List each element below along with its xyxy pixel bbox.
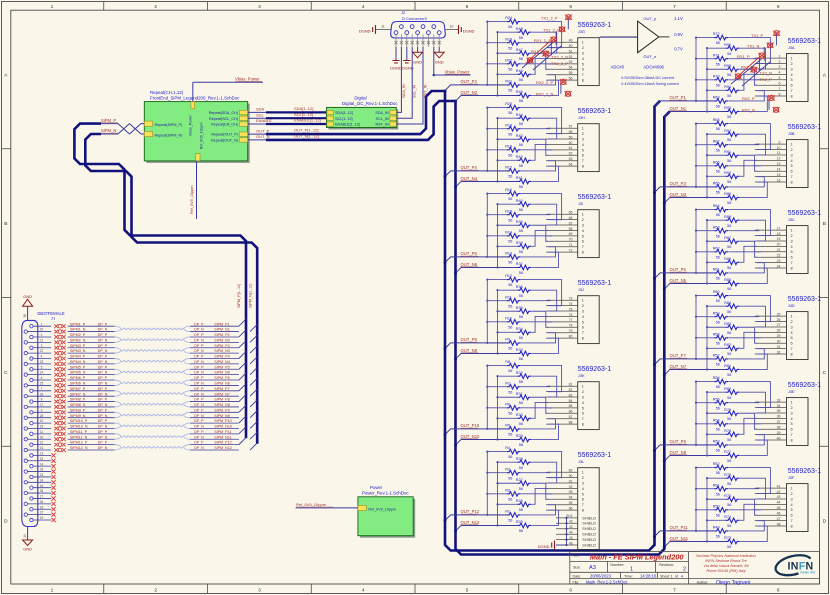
J3E pin 35 — [755, 412, 787, 414]
svg-text:Power_Rev.1-1.SchDoc: Power_Rev.1-1.SchDoc — [362, 491, 409, 496]
svg-text:R78: R78 — [724, 429, 731, 433]
wire R47 to pin 54 — [532, 53, 548, 69]
resistor R50 — [714, 507, 728, 512]
connector J1 body — [22, 320, 38, 526]
resistor R58 — [714, 336, 728, 341]
svg-text:5: 5 — [779, 76, 781, 80]
svg-text:3: 3 — [791, 325, 793, 329]
svg-text:SiPM9_N: SiPM9_N — [70, 414, 86, 418]
J3F pin 45 — [755, 509, 787, 511]
svg-text:19: 19 — [777, 237, 781, 241]
svg-text:56: 56 — [727, 310, 731, 314]
svg-text:4: 4 — [779, 71, 781, 75]
wire R9 left — [487, 342, 506, 344]
DGND power port left of J2 — [375, 25, 377, 29]
ferrite bead row SiPM4_N — [54, 362, 65, 366]
connector J3H body — [578, 124, 600, 172]
svg-text:44: 44 — [569, 531, 573, 535]
svg-text:DP_P: DP_P — [98, 419, 108, 423]
wire RST_IN from J2 to Digital — [396, 47, 423, 124]
svg-text:DP_P: DP_P — [98, 398, 108, 402]
bus entry SiPM_N2 — [250, 335, 257, 342]
bus entry SiPM_P6 — [239, 373, 246, 380]
svg-text:DP_N: DP_N — [194, 360, 204, 364]
svg-text:56: 56 — [727, 482, 731, 486]
resistor R12 — [507, 277, 521, 282]
svg-text:SiPM7_P: SiPM7_P — [70, 387, 86, 391]
J3L collector wire odd — [497, 462, 499, 525]
J1 pin 32 — [24, 459, 27, 462]
svg-text:B: B — [823, 221, 826, 227]
svg-text:RX2_N: RX2_N — [742, 108, 755, 113]
svg-text:12: 12 — [777, 157, 781, 161]
ferrite bead row SiPM8_N — [54, 405, 65, 409]
wire R37 to pin 72 — [532, 252, 559, 267]
svg-text:53: 53 — [569, 60, 573, 64]
resistor R56 — [714, 379, 728, 384]
svg-text:Power: Power — [370, 485, 383, 490]
svg-text:56: 56 — [727, 224, 731, 228]
J1 pin 35 — [24, 491, 27, 494]
svg-text:2: 2 — [791, 234, 793, 238]
resistor R3 — [507, 470, 521, 475]
resistor R27 — [517, 481, 531, 486]
svg-text:SCL_IN: SCL_IN — [413, 84, 417, 98]
J3A pin 5 — [755, 79, 787, 81]
svg-text:36: 36 — [777, 415, 781, 419]
twisted pair channel 5 — [121, 371, 184, 373]
svg-text:R53: R53 — [713, 440, 720, 444]
no-connect X pin 35 — [51, 491, 55, 495]
svg-text:8: 8 — [791, 524, 793, 528]
svg-text:5: 5 — [41, 365, 43, 369]
svg-text:R3: R3 — [505, 467, 510, 471]
svg-text:Diego Tagnani: Diego Tagnani — [716, 580, 750, 586]
sheet symbol FrontEnd_SiPM shadow — [146, 104, 249, 163]
wire R53 left — [696, 444, 714, 446]
wire DP right row 15 — [190, 406, 239, 408]
wire R71 left — [696, 58, 714, 60]
resistor R79 — [726, 411, 740, 416]
svg-text:8: 8 — [791, 438, 793, 442]
ferrite bead row SiPM3_P — [54, 346, 65, 350]
no-connect X pin 32 — [51, 459, 55, 463]
svg-text:R88: R88 — [724, 215, 731, 219]
J3K pin 84 — [546, 401, 578, 403]
svg-text:56: 56 — [519, 401, 523, 405]
wire R72 left — [696, 37, 714, 39]
svg-text:8: 8 — [582, 509, 584, 513]
svg-text:6: 6 — [791, 256, 793, 260]
wire R7 left — [487, 386, 506, 388]
J3G collector wire odd — [497, 32, 499, 95]
svg-text:56: 56 — [508, 519, 512, 523]
wire R49 to pin 47 — [729, 521, 765, 531]
svg-text:56: 56 — [716, 127, 720, 131]
wire R67 left — [696, 144, 714, 146]
svg-text:55: 55 — [569, 71, 573, 75]
svg-text:6: 6 — [582, 498, 584, 502]
svg-text:DGND: DGND — [359, 29, 371, 34]
wire DP right row 23 — [190, 449, 239, 451]
svg-text:DP_N: DP_N — [194, 403, 204, 407]
resistor R43 — [517, 137, 531, 142]
resistor R88 — [726, 218, 740, 223]
svg-text:37: 37 — [40, 511, 44, 515]
svg-text:DP_P: DP_P — [194, 419, 204, 423]
J1 GND top wire — [27, 307, 29, 321]
svg-text:R76: R76 — [724, 473, 731, 477]
wire tap OUT_N9 — [664, 455, 725, 461]
svg-text:56: 56 — [519, 229, 523, 233]
J3G pin 51 — [546, 52, 578, 54]
svg-text:Repeat(SDA_CH): Repeat(SDA_CH) — [209, 111, 238, 115]
wire R43 left — [498, 138, 518, 140]
svg-text:0.9V: 0.9V — [674, 32, 683, 37]
svg-text:OUT_N4: OUT_N4 — [461, 176, 478, 181]
svg-text:R20: R20 — [505, 102, 512, 106]
bus SiPM_P staircase to DB37 — [74, 124, 246, 439]
wire R79 left — [707, 412, 726, 414]
resistor R14 — [507, 234, 521, 239]
wire DP right row 13 — [190, 395, 239, 397]
GND power port top — [23, 299, 33, 306]
wire R70 left — [696, 79, 714, 81]
wire R23 left — [487, 42, 506, 44]
svg-text:3: 3 — [791, 411, 793, 415]
resistor R55 — [714, 400, 728, 405]
wire R1 left — [487, 514, 506, 516]
wire R82 left — [707, 347, 726, 349]
svg-text:70: 70 — [569, 238, 573, 242]
connector J3I body — [578, 210, 600, 258]
svg-text:14: 14 — [777, 168, 781, 172]
sheet entry SCL[1..12] — [327, 116, 334, 120]
svg-text:5569263-1: 5569263-1 — [788, 296, 822, 303]
wire R12 left — [487, 279, 506, 281]
svg-text:R2: R2 — [505, 488, 510, 492]
svg-text:OUT_P9: OUT_P9 — [670, 439, 687, 444]
connector J3G body — [578, 38, 600, 86]
svg-text:78: 78 — [569, 324, 573, 328]
J3C pin 21 — [755, 251, 787, 253]
wire R2 to pin 93 — [521, 493, 552, 495]
svg-text:DP_N: DP_N — [194, 328, 204, 332]
J2 pin circles top row — [400, 25, 404, 29]
wire R41 left — [498, 180, 518, 182]
svg-text:5569263-1: 5569263-1 — [578, 22, 612, 29]
svg-text:56: 56 — [508, 369, 512, 373]
wire SiPM1_P — [68, 325, 115, 327]
svg-text:SiPM_N5: SiPM_N5 — [214, 371, 230, 375]
svg-text:R72: R72 — [713, 32, 720, 36]
wire R85 to pin 24 — [740, 268, 767, 283]
wire R36 to pin 75 — [532, 290, 557, 311]
wire DP right row 16 — [190, 411, 239, 413]
svg-text:R94: R94 — [724, 85, 731, 89]
wire R27 to pin 94 — [532, 483, 548, 499]
wire R49 left — [696, 530, 714, 532]
svg-text:56: 56 — [727, 287, 731, 291]
svg-text:4: 4 — [791, 331, 793, 335]
svg-text:22: 22 — [40, 349, 44, 353]
wire R41 to pin 64 — [532, 166, 559, 181]
wire R22 to pin 53 — [521, 63, 552, 65]
wire tap OUT_N3 — [664, 197, 725, 203]
wire amp output — [659, 36, 670, 38]
svg-text:R79: R79 — [724, 408, 731, 412]
svg-text:27: 27 — [777, 323, 781, 327]
svg-text:11: 11 — [381, 25, 385, 29]
J3A pin 3 — [755, 68, 787, 70]
svg-text:63: 63 — [569, 157, 573, 161]
J1 pin 36 — [24, 502, 27, 505]
svg-text:R11: R11 — [505, 295, 512, 299]
resistor R78 — [726, 432, 740, 437]
bus OUT_P[1..12] — [266, 91, 660, 551]
svg-text:DP_P: DP_P — [194, 398, 204, 402]
svg-text:20: 20 — [40, 328, 44, 332]
resistor R52 — [714, 465, 728, 470]
svg-text:R10: R10 — [505, 316, 512, 320]
J1 pin 12 — [30, 443, 33, 446]
wire SiPM9_N — [68, 417, 115, 419]
wire R21 to pin 55 — [521, 75, 556, 85]
resistor R21 — [507, 83, 521, 88]
resistor R36 — [517, 288, 531, 293]
svg-text:R9: R9 — [505, 338, 510, 342]
svg-text:4: 4 — [362, 4, 365, 10]
svg-text:1: 1 — [41, 322, 43, 326]
J1 pin 28 — [24, 416, 27, 419]
svg-text:OUT_N12: OUT_N12 — [461, 520, 481, 525]
connector J3A body — [787, 54, 809, 102]
wire R12 to pin 74 — [521, 280, 562, 306]
svg-text:56: 56 — [727, 396, 731, 400]
svg-text:2: 2 — [779, 60, 781, 64]
svg-text:Vbias_Power: Vbias_Power — [189, 114, 193, 136]
svg-text:OUT_P3: OUT_P3 — [670, 181, 687, 186]
wire R70 to pin 5 — [729, 79, 761, 81]
svg-text:SiPM_P: SiPM_P — [101, 118, 116, 123]
svg-text:DP_N: DP_N — [194, 338, 204, 342]
wire OUT_N from FrontEnd — [248, 139, 266, 141]
svg-text:SiPM_N10: SiPM_N10 — [214, 425, 232, 429]
svg-text:Ref_0V9_10ppm: Ref_0V9_10ppm — [368, 507, 396, 511]
svg-text:OUT_P4: OUT_P4 — [461, 165, 478, 170]
svg-text:SiPM_N12: SiPM_N12 — [214, 446, 232, 450]
J3L shield pin 45 — [556, 539, 578, 541]
svg-text:56: 56 — [519, 250, 523, 254]
svg-text:56: 56 — [716, 213, 720, 217]
J3B collector wire even — [695, 124, 697, 187]
svg-text:26: 26 — [777, 318, 781, 322]
J3I pin 69 — [546, 235, 578, 237]
resistor R95 — [726, 67, 740, 72]
wire R33 left — [498, 352, 518, 354]
J3A pin 4 — [755, 73, 787, 75]
J3A collector wire odd — [706, 48, 708, 111]
J3B pin 16 — [755, 181, 787, 183]
svg-text:5569263-1: 5569263-1 — [788, 38, 822, 45]
svg-text:56: 56 — [508, 218, 512, 222]
J1 pin 3 — [30, 346, 33, 349]
svg-text:R26: R26 — [516, 499, 523, 503]
wire R29 left — [498, 438, 518, 440]
svg-text:56: 56 — [716, 320, 720, 324]
svg-text:SiPM_N9: SiPM_N9 — [214, 414, 230, 418]
svg-text:R86: R86 — [724, 257, 731, 261]
no-ERC marker J3G 3 — [550, 37, 557, 42]
wire R61 to pin 23 — [729, 263, 765, 273]
twisted pair channel 7 — [121, 393, 184, 395]
J3K collector wire odd — [497, 376, 499, 439]
svg-text:Repeat(SCL_CH): Repeat(SCL_CH) — [209, 117, 238, 121]
J1 pin 23 — [24, 362, 27, 365]
svg-text:17: 17 — [777, 226, 781, 230]
J3L pin 93 — [546, 493, 578, 495]
J1 pin 24 — [24, 373, 27, 376]
twisted pair channel 4 — [121, 360, 184, 362]
wire R68 left — [696, 123, 714, 125]
svg-text:DP_N: DP_N — [98, 392, 108, 396]
svg-text:Date:: Date: — [573, 574, 582, 578]
wire R55 to pin 33 — [729, 401, 759, 404]
resistor R7 — [507, 384, 521, 389]
wire R84 to pin 27 — [740, 306, 766, 327]
resistor R92 — [726, 132, 740, 137]
wire R34 to pin 76 — [532, 316, 548, 332]
J3B collector wire odd — [706, 134, 708, 197]
J3L shield pin 43 — [556, 528, 578, 530]
bus entry SiPM_N8 — [250, 400, 257, 407]
svg-text:SiPM12_P: SiPM12_P — [70, 441, 88, 445]
resistor R73 — [726, 539, 740, 544]
svg-text:R50: R50 — [713, 504, 720, 508]
svg-text:R47: R47 — [516, 48, 523, 52]
wire R27 left — [498, 482, 518, 484]
wire R11 to pin 73 — [521, 299, 550, 302]
resistor R63 — [714, 228, 728, 233]
svg-text:OUT_N1: OUT_N1 — [670, 106, 687, 111]
wire R60 left — [696, 295, 714, 297]
J3K pin 83 — [546, 396, 578, 398]
svg-text:56: 56 — [519, 529, 523, 533]
connector J3E body — [787, 398, 809, 446]
svg-text:DP_N: DP_N — [98, 382, 108, 386]
wire R66 left — [696, 165, 714, 167]
resistor R25 — [517, 523, 531, 528]
wire R93 left — [707, 110, 726, 112]
svg-text:45: 45 — [777, 506, 781, 510]
wire R4 to pin 90 — [521, 452, 562, 478]
sheet entry Vbias_Power top — [191, 102, 195, 109]
sheet symbol Power shadow — [360, 499, 415, 538]
svg-text:of: of — [675, 574, 678, 578]
ferrite bead row SiPM12_P — [54, 443, 65, 447]
ferrite bead row SiPM7_N — [54, 394, 65, 398]
svg-text:56: 56 — [727, 52, 731, 56]
svg-text:R19: R19 — [505, 123, 512, 127]
svg-text:1: 1 — [791, 487, 793, 491]
svg-text:R77: R77 — [724, 450, 731, 454]
svg-text:DP_P: DP_P — [98, 322, 108, 326]
svg-text:6: 6 — [582, 68, 584, 72]
ferrite bead row SiPM7_P — [54, 389, 65, 393]
svg-text:56: 56 — [727, 159, 731, 163]
svg-text:56: 56 — [519, 185, 523, 189]
resistor R61 — [714, 271, 728, 276]
svg-text:5: 5 — [582, 62, 584, 66]
wire R19 to pin 57 — [521, 127, 550, 130]
svg-text:RST_IN: RST_IN — [375, 123, 388, 127]
svg-text:56: 56 — [519, 294, 523, 298]
J3D pin 29 — [755, 337, 787, 339]
svg-text:GND: GND — [435, 60, 444, 65]
J3F pin 43 — [755, 498, 787, 500]
svg-text:SiPM_P5: SiPM_P5 — [214, 365, 229, 369]
svg-text:5569263-1: 5569263-1 — [578, 452, 612, 459]
resistor R87 — [726, 239, 740, 244]
svg-text:19: 19 — [23, 534, 27, 538]
svg-text:56: 56 — [508, 197, 512, 201]
J3A pin 1 — [755, 57, 787, 59]
svg-text:4: 4 — [582, 57, 584, 61]
J3F pin 41 — [755, 487, 787, 489]
resistor R39 — [517, 223, 531, 228]
wire DP right row 17 — [190, 417, 239, 419]
DGND power port right of J2 — [459, 25, 462, 34]
wire R39 to pin 70 — [532, 225, 548, 241]
svg-text:R58: R58 — [713, 332, 720, 336]
svg-text:SiPM4_N: SiPM4_N — [70, 360, 86, 364]
svg-text:R24: R24 — [505, 16, 512, 20]
J1 pin 30 — [24, 438, 27, 441]
svg-text:56: 56 — [508, 261, 512, 265]
svg-text:R37: R37 — [516, 262, 523, 266]
svg-text:16: 16 — [40, 484, 44, 488]
svg-text:DP_N: DP_N — [98, 371, 108, 375]
svg-text:4: 4 — [791, 245, 793, 249]
J1 pin 29 — [24, 427, 27, 430]
svg-text:79: 79 — [569, 329, 573, 333]
svg-text:TX1_2_P: TX1_2_P — [541, 15, 558, 20]
svg-text:8: 8 — [41, 398, 43, 402]
svg-text:35: 35 — [777, 409, 781, 413]
wire R75 left — [707, 498, 726, 500]
svg-text:DP_N: DP_N — [194, 382, 204, 386]
wire R87 to pin 22 — [740, 241, 757, 257]
svg-text:56: 56 — [508, 46, 512, 50]
svg-text:56: 56 — [508, 111, 512, 115]
ferrite bead row SiPM12_N — [54, 448, 65, 452]
wire R89 left — [707, 196, 726, 198]
connector J3D body — [787, 312, 809, 360]
svg-text:R17: R17 — [505, 166, 512, 170]
svg-text:R12: R12 — [505, 274, 512, 278]
ferrite bead row SiPM1_N — [54, 330, 65, 334]
svg-text:OUT_N[1..12]: OUT_N[1..12] — [294, 133, 319, 138]
svg-text:85: 85 — [569, 404, 573, 408]
wire R22 left — [487, 63, 506, 65]
svg-text:SCL: SCL — [256, 112, 265, 117]
resistor R90 — [726, 174, 740, 179]
svg-text:56: 56 — [727, 115, 731, 119]
wire R18 to pin 61 — [521, 149, 552, 151]
svg-text:14:28:16: 14:28:16 — [640, 573, 657, 578]
resistor R23 — [507, 40, 521, 45]
J3A pin 6 — [755, 84, 787, 86]
